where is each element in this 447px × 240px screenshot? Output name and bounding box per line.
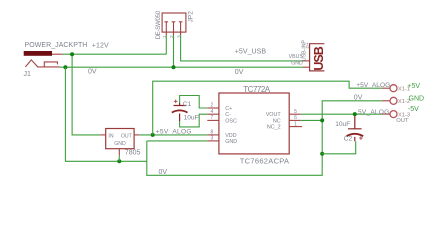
wire IC GND pin3 to left bbox=[147, 140, 208, 142]
pad X1-2 circle bbox=[390, 97, 397, 104]
wire 0V drop to 7805 GND rail bbox=[65, 67, 146, 161]
node junction JP2 pin2 0V bbox=[172, 65, 176, 69]
svg-text:5V_ALOG: 5V_ALOG bbox=[358, 109, 389, 116]
svg-text:1: 1 bbox=[162, 35, 168, 38]
IC pin 6 stub bbox=[289, 119, 301, 121]
wire +5V_ALOG rail to X1-1 bbox=[153, 81, 382, 135]
connector JP2 pin 2 bbox=[172, 22, 176, 35]
svg-text:TC7662ACPA: TC7662ACPA bbox=[240, 156, 290, 165]
7805 IN stub bbox=[100, 134, 106, 136]
IC pin 4 stub bbox=[207, 113, 219, 115]
svg-text:1: 1 bbox=[294, 121, 297, 127]
node junction C2 bottom bbox=[320, 152, 324, 156]
capacitor C2 symbol bbox=[348, 114, 362, 141]
svg-text:J1: J1 bbox=[24, 71, 32, 78]
svg-text:OUT: OUT bbox=[396, 118, 409, 124]
svg-text:3: 3 bbox=[211, 136, 214, 142]
wire NC pin6 to 0V vertical bbox=[301, 119, 323, 121]
IC pin 8 stub bbox=[207, 134, 219, 136]
7805 OUT stub bbox=[134, 134, 139, 136]
wire JP2 pin1 to +12V bbox=[165, 35, 167, 54]
capacitor C1 wire top loop bbox=[180, 96, 208, 109]
connector USB bracket bbox=[310, 44, 325, 71]
svg-text:3: 3 bbox=[176, 35, 182, 38]
connector JP2 pin 3 bbox=[179, 22, 183, 35]
svg-text:0V: 0V bbox=[354, 95, 363, 102]
wire 0V top rail bbox=[60, 66, 303, 68]
svg-text:0V: 0V bbox=[235, 69, 244, 76]
svg-text:C+: C+ bbox=[225, 106, 232, 112]
IC pin 5 stub bbox=[289, 113, 301, 115]
svg-text:C-: C- bbox=[225, 112, 231, 118]
capacitor C1 symbol bbox=[174, 103, 187, 121]
wire JP2 pin2 to 0V bbox=[173, 35, 175, 67]
connector USB VBUS pin stub bbox=[303, 60, 310, 62]
connector USB GND pin stub bbox=[303, 66, 310, 68]
svg-text:0V: 0V bbox=[159, 169, 168, 176]
svg-text:+5V_USB: +5V_USB bbox=[235, 49, 267, 56]
svg-text:10uF: 10uF bbox=[335, 121, 350, 128]
wire 0V bottom rail bbox=[147, 101, 382, 176]
wire VOUT pin5 to X1-3 bbox=[301, 113, 382, 115]
svg-text:OUT: OUT bbox=[121, 133, 133, 139]
svg-text:C1: C1 bbox=[183, 101, 192, 108]
IC pin 2 stub bbox=[207, 107, 219, 109]
connector J1 hook contact bbox=[44, 62, 57, 67]
IC pin 3 stub bbox=[207, 140, 219, 142]
svg-text:POWER_JACKPTH: POWER_JACKPTH bbox=[25, 42, 88, 49]
svg-text:4: 4 bbox=[211, 109, 214, 115]
capacitor C1 plus sign bbox=[174, 100, 178, 104]
node junction C2 top bbox=[353, 112, 357, 116]
node junction +5V_ALOG bbox=[151, 133, 155, 137]
svg-text:GND: GND bbox=[225, 139, 237, 145]
svg-text:VOUT: VOUT bbox=[266, 112, 282, 118]
node junction 0V at J1 bbox=[63, 65, 67, 69]
svg-text:10uF: 10uF bbox=[184, 114, 199, 121]
op-amp U1 TC7662ACPA box bbox=[219, 93, 289, 154]
node junction pin6 bbox=[320, 118, 324, 122]
pad X1-3 circle bbox=[390, 111, 397, 118]
svg-text:7: 7 bbox=[211, 115, 214, 121]
7805 GND stub bbox=[118, 149, 120, 155]
svg-text:IN: IN bbox=[108, 133, 113, 139]
wire +5V_ALOG from 7805 OUT to IC VDD bbox=[139, 134, 207, 136]
svg-text:2: 2 bbox=[169, 35, 175, 38]
svg-text:USB: USB bbox=[312, 46, 326, 70]
wire +12V horizontal bbox=[52, 53, 63, 55]
svg-text:-5V: -5V bbox=[408, 106, 419, 113]
connector JP2 box bbox=[162, 13, 186, 32]
svg-text:NC_2: NC_2 bbox=[267, 125, 281, 131]
svg-text:GND: GND bbox=[409, 96, 425, 103]
voltage regulator 7805 box bbox=[106, 129, 134, 149]
svg-text:7805: 7805 bbox=[125, 150, 141, 157]
wire 7805 GND to rail bbox=[118, 155, 120, 161]
wire C2 bottom to 0V bbox=[322, 141, 356, 154]
connector JP2 pin 1 bbox=[165, 22, 169, 35]
connector J1 zigzag contact bbox=[25, 60, 59, 67]
svg-text:NC: NC bbox=[273, 118, 281, 124]
node junction +12V bbox=[70, 52, 74, 56]
node junction 7805 GND bbox=[117, 159, 121, 163]
capacitor C2 plus sign bbox=[359, 136, 363, 140]
pad X1-1 stub bbox=[382, 87, 390, 89]
pad X1-3 stub bbox=[382, 113, 390, 115]
svg-text:2: 2 bbox=[211, 103, 214, 109]
wire +12V drop to 7805 IN bbox=[72, 54, 100, 135]
svg-text:+5V_ALOG: +5V_ALOG bbox=[156, 129, 192, 136]
pad X1-2 stub bbox=[382, 100, 390, 102]
svg-text:5: 5 bbox=[294, 109, 297, 115]
wire +5V_USB from JP2 pin3 to USB VBUS bbox=[181, 35, 303, 61]
svg-text:DE-SW050: DE-SW050 bbox=[155, 10, 162, 39]
svg-text:+12V: +12V bbox=[92, 42, 109, 49]
svg-text:GND: GND bbox=[114, 141, 126, 147]
capacitor C1 wire bottom loop bbox=[180, 114, 208, 127]
svg-text:TC772A: TC772A bbox=[243, 85, 271, 94]
svg-text:OSC: OSC bbox=[225, 118, 237, 124]
connector J1 power jack bar bbox=[24, 51, 52, 56]
svg-text:C2: C2 bbox=[344, 135, 353, 142]
svg-text:D+: D+ bbox=[305, 42, 310, 48]
svg-text:0V: 0V bbox=[88, 69, 97, 76]
svg-text:JP2: JP2 bbox=[188, 11, 195, 23]
IC pin 7 stub bbox=[207, 119, 219, 121]
IC pin 1 stub bbox=[289, 126, 302, 128]
svg-text:+5V: +5V bbox=[407, 83, 420, 90]
pad X1-1 circle bbox=[390, 85, 397, 92]
svg-text:6: 6 bbox=[294, 115, 297, 121]
